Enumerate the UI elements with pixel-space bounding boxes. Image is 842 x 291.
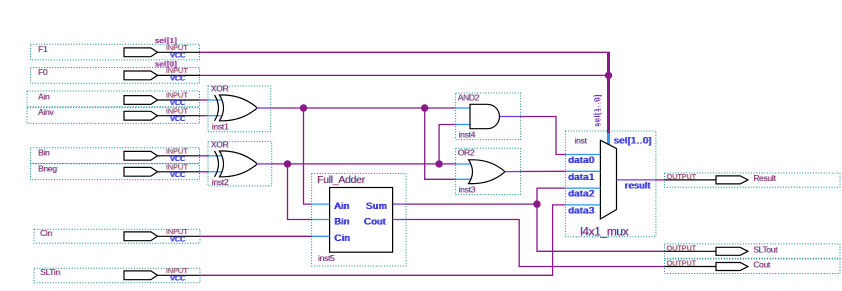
wire Cin pin to Full_Adder [200, 235, 313, 237]
svg-text:SLTin: SLTin [40, 267, 60, 277]
junction F0/sel bus [605, 72, 612, 79]
wire F1 to sel bus [200, 51, 610, 53]
svg-text:VCC: VCC [170, 114, 185, 123]
wire AND2 out to mux data0 [521, 117, 566, 155]
svg-text:data3: data3 [568, 205, 594, 216]
wire Ain to XOR1 [200, 99, 210, 101]
block Full_Adder inst5 [312, 174, 406, 267]
svg-text:sel[1]: sel[1] [155, 36, 177, 45]
mux l4x1_mux inst [565, 131, 656, 238]
svg-text:F1: F1 [38, 44, 48, 54]
svg-text:data0: data0 [568, 155, 594, 166]
svg-text:Sum: Sum [366, 201, 387, 212]
wire branch up to AND2 lower input [439, 125, 456, 164]
svg-text:XOR: XOR [211, 140, 229, 150]
svg-text:AND2: AND2 [458, 93, 480, 103]
svg-text:Cout: Cout [753, 260, 771, 270]
input pin Bneg [31, 163, 200, 180]
input pin Bin [31, 147, 200, 164]
svg-text:sel[1..0]: sel[1..0] [614, 136, 652, 147]
wire Sum branch up to mux data2 [537, 188, 566, 204]
wire XOR2 out to OR2 top input [272, 163, 456, 165]
svg-text:l4x1_mux: l4x1_mux [580, 224, 629, 238]
input pin Cin [34, 227, 200, 244]
and gate AND2 inst4 [456, 93, 521, 140]
wire mux result stub [617, 179, 656, 181]
svg-text:inst5: inst5 [318, 253, 335, 263]
junction Sum node [533, 200, 540, 207]
svg-text:sel[1..0]: sel[1..0] [594, 94, 603, 127]
svg-text:sel[0]: sel[0] [155, 59, 177, 68]
bus sel[1..0] vertical [607, 52, 610, 133]
svg-text:inst: inst [575, 136, 588, 146]
svg-text:Ain: Ain [334, 201, 349, 212]
wire Bneg to XOR2 [200, 171, 210, 173]
svg-text:VCC: VCC [170, 235, 185, 244]
svg-text:OR2: OR2 [458, 148, 475, 158]
svg-text:Bin: Bin [38, 147, 50, 157]
wire Cout to output pin [406, 220, 665, 267]
svg-text:inst3: inst3 [459, 185, 476, 195]
svg-text:data2: data2 [568, 189, 594, 200]
wire AND2 out stub [500, 116, 521, 118]
wire SLTin to mux data3 [200, 205, 566, 275]
input pin Ainv [27, 106, 200, 123]
wire Sum branch down to SLTout [537, 204, 665, 251]
xor gate XOR inst2 [208, 140, 272, 188]
output pin Cout [665, 259, 841, 274]
svg-text:Ainv: Ainv [38, 107, 54, 117]
wire Bin to XOR2 [200, 155, 210, 157]
wire XOR1 out to AND2 top input [271, 107, 456, 109]
input pin F0 [31, 66, 200, 83]
wire XOR2 out stub [257, 163, 272, 165]
svg-text:Result: Result [753, 173, 776, 183]
input pin SLTin [34, 266, 200, 283]
svg-text:VCC: VCC [170, 51, 185, 60]
svg-text:F0: F0 [38, 67, 48, 77]
junction XOR1-out / OR2 lower branch [421, 104, 428, 111]
svg-text:data1: data1 [568, 172, 594, 183]
svg-text:XOR: XOR [211, 84, 229, 94]
wire branch down to Full_Adder Ain [304, 108, 313, 204]
svg-text:VCC: VCC [170, 274, 185, 283]
svg-text:Cin: Cin [40, 228, 52, 238]
svg-text:inst4: inst4 [459, 129, 476, 139]
svg-text:Ain: Ain [38, 92, 50, 102]
or gate OR2 inst3 [456, 148, 521, 195]
svg-text:Cout: Cout [364, 216, 386, 227]
input pin F1 [31, 43, 200, 60]
svg-text:SLTout: SLTout [753, 244, 778, 254]
wire OR2 out stub [505, 171, 521, 173]
svg-text:Full_Adder: Full_Adder [317, 174, 366, 186]
svg-text:Bneg: Bneg [38, 163, 57, 173]
svg-text:Bin: Bin [334, 216, 349, 227]
wire result to Result pin [656, 179, 665, 181]
wire F0 to sel bus [200, 74, 609, 76]
wire OR2 out to mux data1 [521, 170, 566, 172]
output pin Result [665, 172, 841, 187]
input pin Ain [27, 91, 200, 108]
wire branch down to OR2 lower input [425, 108, 456, 179]
svg-text:inst1: inst1 [212, 122, 229, 132]
xor gate XOR inst1 [208, 84, 271, 132]
wire Ainv to XOR1 [200, 115, 210, 117]
svg-text:VCC: VCC [170, 74, 185, 83]
wire branch down to Full_Adder Bin [288, 164, 313, 220]
junction XOR1-out / Full_Adder Ain branch [300, 104, 307, 111]
svg-text:inst2: inst2 [212, 177, 229, 187]
junction XOR2-out / Full_Adder Bin branch [284, 160, 291, 167]
output pin SLTout [665, 243, 841, 258]
wire Sum out [406, 203, 537, 205]
svg-text:result: result [625, 181, 651, 192]
wire XOR1 out stub [257, 107, 271, 109]
junction XOR2-out / AND2 lower branch [435, 160, 442, 167]
svg-text:VCC: VCC [170, 170, 185, 179]
svg-text:Cin: Cin [334, 233, 350, 244]
